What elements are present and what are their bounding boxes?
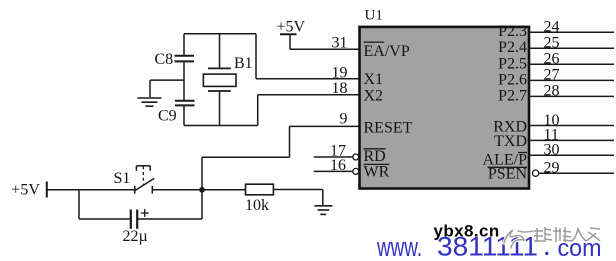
svg-text:S1: S1 bbox=[114, 170, 131, 187]
wire: pin 26 (P2.5) bbox=[529, 63, 614, 65]
wire: WR stub to pin 16 bbox=[314, 170, 353, 172]
wire: switch to resistor (through junction) bbox=[152, 189, 245, 191]
wire: cap right plate to reset vertical bbox=[137, 218, 202, 220]
svg-text:P2.7: P2.7 bbox=[498, 87, 527, 104]
pin label EA/VP (pin 31) bbox=[364, 42, 410, 60]
wire: RESET net vertical bbox=[289, 126, 291, 157]
switch S1 (pushbutton) bbox=[135, 166, 154, 194]
svg-text:24: 24 bbox=[544, 19, 560, 36]
svg-text:28: 28 bbox=[544, 83, 560, 100]
wire: left rail upper (top to C8) bbox=[183, 34, 185, 55]
wire: X1 to chip pin 19 bbox=[256, 78, 360, 80]
bubble: RD pin inversion circle bbox=[353, 154, 359, 160]
svg-text:P2.5: P2.5 bbox=[498, 55, 527, 72]
plus sign of 22u cap bbox=[141, 209, 149, 217]
IC U1 body bbox=[360, 27, 530, 189]
pin label RD (pin 17) bbox=[364, 148, 386, 165]
svg-text:P2.6: P2.6 bbox=[498, 71, 527, 88]
svg-text:B1: B1 bbox=[234, 55, 253, 72]
capacitor C9 bbox=[175, 101, 195, 106]
svg-text:31: 31 bbox=[332, 34, 348, 51]
wire: ground branch from caps midpoint bbox=[150, 79, 184, 81]
wire: left rail lower (C9 to bottom) bbox=[183, 105, 185, 125]
wire: X2 to chip pin 18 bbox=[258, 94, 360, 96]
wire: to 22u cap left plate bbox=[79, 218, 130, 220]
svg-text:26: 26 bbox=[544, 51, 560, 68]
power +5V terminal (top) bbox=[277, 19, 306, 50]
crystal B1 bbox=[203, 34, 236, 126]
wire: pin 10 (RXD) bbox=[529, 125, 614, 127]
pin label PSEN (pin 29) bbox=[488, 166, 528, 183]
watermark gray text (Chinese) bbox=[534, 227, 600, 242]
svg-text:U1: U1 bbox=[365, 7, 383, 23]
svg-text:C9: C9 bbox=[158, 108, 177, 125]
wire: pin 27 (P2.6) bbox=[529, 79, 614, 81]
wire: capacitor branch vertical drop bbox=[78, 190, 80, 219]
svg-text:P2.4: P2.4 bbox=[498, 39, 527, 56]
wire: pin 28 (P2.7) bbox=[529, 95, 614, 97]
svg-text:EA/VP: EA/VP bbox=[364, 43, 410, 60]
bubble: PSEN pin inversion circle bbox=[532, 170, 538, 176]
wire: left rail middle (C8 to C9) bbox=[183, 61, 185, 100]
svg-text:WR: WR bbox=[364, 163, 390, 180]
svg-text:30: 30 bbox=[544, 142, 560, 159]
ground symbol (reset resistor) bbox=[314, 206, 332, 215]
svg-text:29: 29 bbox=[544, 159, 560, 176]
pin label ALE/P (pin 30) bbox=[483, 152, 528, 169]
wire: pin 11 (TXD) bbox=[529, 139, 614, 141]
svg-text:27: 27 bbox=[544, 67, 560, 84]
junction dot (reset node) bbox=[199, 187, 205, 193]
wire: pin 29 (PSEN) bbox=[539, 172, 614, 174]
svg-text:X2: X2 bbox=[364, 88, 384, 105]
capacitor C8 bbox=[175, 56, 195, 62]
svg-text:10k: 10k bbox=[245, 197, 269, 214]
wire: RESET net horizontal from chip pin 9 bbox=[290, 125, 360, 127]
svg-text:RESET: RESET bbox=[364, 119, 413, 136]
power +5V terminal (left) bbox=[11, 182, 47, 199]
svg-text:www.: www. bbox=[376, 232, 422, 261]
pin label WR (pin 16) bbox=[364, 163, 390, 180]
svg-text:22µ: 22µ bbox=[123, 228, 148, 245]
wire: pin 24 (P2.3) bbox=[529, 31, 614, 33]
svg-text:18: 18 bbox=[332, 80, 348, 97]
wire: +5V to switch bbox=[47, 189, 135, 191]
wire: RD stub to pin 17 bbox=[314, 156, 353, 158]
wire: pin 25 (P2.4) bbox=[529, 47, 614, 49]
svg-text:PSEN: PSEN bbox=[488, 166, 528, 183]
svg-text:+5V: +5V bbox=[277, 19, 306, 36]
wire: oscillator top rail bbox=[184, 33, 256, 35]
svg-text:P2.3: P2.3 bbox=[498, 23, 527, 40]
watermark gray scribble bbox=[504, 230, 533, 248]
svg-text:RD: RD bbox=[364, 148, 386, 165]
wire: right rail top (to X1) bbox=[255, 34, 257, 79]
svg-text:25: 25 bbox=[544, 35, 560, 52]
bubble: WR pin inversion circle bbox=[353, 168, 359, 174]
svg-text:TXD: TXD bbox=[494, 133, 527, 150]
svg-text:C8: C8 bbox=[155, 51, 174, 68]
capacitor C (22u electrolytic) bbox=[131, 210, 137, 229]
wire: resistor to ground bbox=[273, 189, 322, 191]
wire: pin 30 (ALE/P) bbox=[529, 154, 614, 156]
wire: RESET net horizontal 2 bbox=[202, 156, 290, 158]
svg-text:X1: X1 bbox=[364, 71, 384, 88]
resistor R (10k) bbox=[246, 184, 274, 195]
wire: +5V to EA/VP pin 31 bbox=[290, 48, 360, 50]
svg-text:9: 9 bbox=[340, 110, 348, 127]
wire: oscillator bottom rail bbox=[184, 125, 258, 127]
wire: RESET net vertical to junction bbox=[201, 157, 203, 219]
svg-text:+5V: +5V bbox=[11, 182, 40, 199]
ground symbol (oscillator) bbox=[138, 98, 162, 106]
svg-text:16: 16 bbox=[330, 157, 346, 174]
